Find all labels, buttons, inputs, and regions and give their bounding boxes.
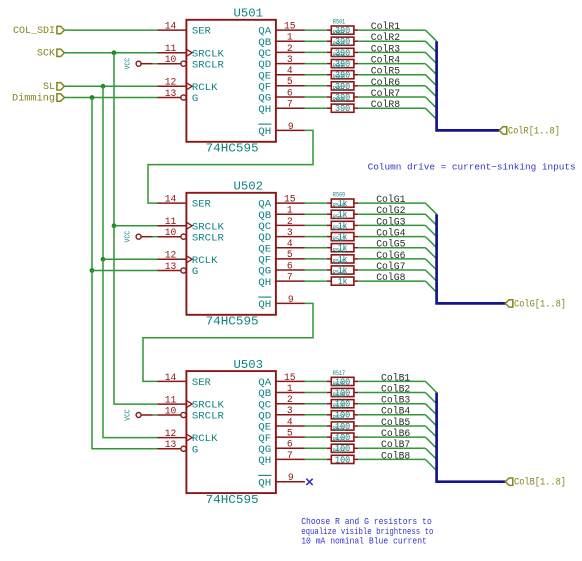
wire VCC to U503 SRCLR	[153, 414, 158, 416]
wire ColB7 pin to resistor R523	[305, 447, 327, 449]
wire resistor R506 to bus entry	[358, 85, 425, 87]
wire VCC to U502 SRCLR	[153, 236, 158, 238]
wire COL_SDI to U501 SER	[64, 29, 157, 31]
U503 pin 3 QD	[258, 406, 305, 422]
svg-text:5: 5	[287, 77, 293, 88]
wire resistor R512 to bus entry	[358, 236, 425, 238]
resistor R515 1k	[327, 258, 358, 276]
bus entry ColR8	[425, 108, 436, 119]
bus entry ColG8	[425, 281, 436, 292]
wire resistor R507 to bus entry	[358, 96, 425, 98]
svg-text:10: 10	[165, 406, 177, 417]
wire SL vertical to U502 RCLK	[102, 86, 104, 259]
svg-text:2: 2	[287, 395, 293, 406]
wire to U502 RCLK	[103, 258, 158, 260]
svg-text:QF: QF	[258, 434, 271, 445]
U503 pin 4 QE	[258, 417, 305, 433]
wire resistor R522 to bus entry	[358, 436, 425, 438]
wire ColG5 pin to resistor R513	[305, 247, 327, 249]
svg-text:15: 15	[284, 22, 296, 33]
U502 pin 10 SRCLR	[158, 228, 224, 244]
svg-text:QE: QE	[258, 244, 271, 255]
bus entry ColG5	[425, 248, 436, 259]
U502 pin 13 G	[158, 262, 199, 278]
svg-text:15: 15	[284, 373, 296, 384]
svg-text:QH: QH	[258, 456, 271, 467]
wire ColR3 pin to resistor R503	[305, 51, 327, 53]
wire Dimming vertical to U502 G	[91, 98, 93, 271]
svg-text:12: 12	[165, 429, 177, 440]
svg-text:SER: SER	[192, 378, 211, 389]
wire resistor R521 to bus entry	[358, 425, 425, 427]
svg-text:QH: QH	[258, 300, 271, 311]
U502 pin 11 SRCLK	[158, 217, 225, 233]
wire ColB8 pin to resistor R524	[305, 458, 327, 460]
wire resistor R518 to bus entry	[358, 392, 425, 394]
wire resistor R516 to bus entry	[358, 280, 425, 282]
U502 pin 14 SER	[158, 195, 211, 211]
svg-text:4: 4	[287, 417, 293, 428]
bus entry ColR6	[425, 86, 436, 97]
U501 pin 5 QF	[258, 77, 305, 93]
svg-text:RCLK: RCLK	[192, 83, 219, 94]
resistor R511 1k	[327, 214, 358, 232]
resistor R507 390	[327, 85, 358, 103]
U503 pin 1 QB	[258, 384, 305, 400]
resistor R523 100	[327, 437, 358, 455]
svg-text:VCC: VCC	[124, 57, 132, 69]
U502 pin 12 RCLK	[158, 251, 219, 267]
svg-text:SRCLK: SRCLK	[192, 49, 225, 60]
wire ColR6 pin to resistor R506	[305, 85, 327, 87]
wire to U502 G	[92, 270, 158, 272]
bus ColB[1..8]	[437, 393, 506, 482]
svg-text:SRCLK: SRCLK	[192, 401, 225, 412]
svg-text:QA: QA	[258, 200, 272, 211]
wire ColB2 pin to resistor R518	[305, 392, 327, 394]
bus entry ColG2	[425, 214, 436, 225]
bus entry ColB2	[425, 393, 436, 404]
U501 pin 9 QH-bar	[258, 122, 305, 138]
bus entry ColR5	[425, 75, 436, 86]
U501 pin 3 QD	[258, 55, 305, 71]
wire SL to U501 RCLK	[64, 85, 157, 87]
wire resistor R511 to bus entry	[358, 224, 425, 226]
U502 pin 3 QD	[258, 228, 305, 244]
resistor R505 390	[327, 63, 358, 81]
svg-text:3: 3	[287, 406, 293, 417]
wire ColR7 pin to resistor R507	[305, 96, 327, 98]
svg-text:SRCLR: SRCLR	[192, 60, 224, 71]
resistor R503 390	[327, 41, 358, 59]
U502 pin 4 QE	[258, 239, 305, 255]
resistor R517 100	[327, 370, 358, 388]
U502 pin 15 QA	[258, 195, 305, 211]
U501 pin 13 G	[158, 89, 199, 105]
resistor R510 1k	[327, 203, 358, 221]
svg-text:QB: QB	[258, 389, 271, 400]
wire ColR8 pin to resistor R508	[305, 107, 327, 109]
U503 pin 13 G	[158, 440, 199, 456]
U501 pin 11 SRCLK	[158, 44, 225, 60]
svg-text:13: 13	[165, 89, 177, 100]
bus entry ColG6	[425, 259, 436, 270]
resistor R514 1k	[327, 247, 358, 264]
svg-text:QF: QF	[258, 256, 271, 267]
wire resistor R501 to bus entry	[358, 29, 425, 31]
U503 pin 5 QF	[258, 429, 305, 445]
wire U501 QH-bar to U502 SER	[148, 130, 313, 203]
svg-text:11: 11	[165, 44, 177, 55]
wire resistor R523 to bus entry	[358, 447, 425, 449]
U502 pin 9 QH-bar	[258, 295, 305, 311]
junction	[101, 84, 106, 89]
resistor R513 1k	[327, 236, 358, 254]
bus entry ColR3	[425, 52, 436, 63]
junction	[112, 223, 117, 228]
wire resistor R504 to bus entry	[358, 63, 425, 65]
resistor R506 390	[327, 74, 358, 92]
resistor R521 100	[327, 414, 358, 432]
svg-text:RCLK: RCLK	[192, 256, 219, 267]
svg-text:2: 2	[287, 44, 293, 55]
IC U501 74HC595 body	[186, 20, 276, 142]
svg-text:QD: QD	[258, 233, 271, 244]
svg-text:100: 100	[335, 455, 350, 465]
svg-text:14: 14	[165, 22, 177, 33]
resistor R520 100	[327, 403, 358, 421]
bus entry ColB8	[425, 459, 436, 470]
wire resistor R515 to bus entry	[358, 269, 425, 271]
svg-text:G: G	[192, 445, 198, 456]
U503 pin 7 QH	[258, 451, 305, 467]
svg-text:QC: QC	[258, 400, 271, 411]
bus entry ColG4	[425, 237, 436, 248]
wire ColG3 pin to resistor R511	[305, 224, 327, 226]
U501 pin 10 SRCLR	[158, 55, 224, 71]
svg-text:10 mA nominal Blue current: 10 mA nominal Blue current	[301, 536, 427, 547]
svg-text:5: 5	[287, 429, 293, 440]
wire Dimming to U501 G	[64, 97, 157, 99]
U503 pin 2 QC	[258, 395, 305, 411]
U503 pin 12 RCLK	[158, 429, 219, 445]
wire ColR2 pin to resistor R502	[305, 40, 327, 42]
wire ColG8 pin to resistor R516	[305, 280, 327, 282]
wire resistor R509 to bus entry	[358, 202, 425, 204]
svg-text:QA: QA	[258, 378, 272, 389]
svg-text:QA: QA	[258, 27, 272, 38]
svg-text:6: 6	[287, 88, 293, 99]
resistor R516 1k	[327, 270, 358, 288]
resistor R504 390	[327, 52, 358, 70]
wire ColG1 pin to resistor R509	[305, 202, 327, 204]
U501 pin 2 QC	[258, 44, 305, 60]
resistor R508 390	[327, 97, 358, 115]
wire ColR5 pin to resistor R505	[305, 74, 327, 76]
wire VCC to U501 SRCLR	[153, 63, 158, 65]
svg-text:ColG[1..8]: ColG[1..8]	[514, 298, 566, 310]
svg-text:6: 6	[287, 261, 293, 272]
svg-text:Dimming: Dimming	[12, 92, 55, 104]
resistor R509 1k	[327, 192, 358, 210]
resistor R501 390	[327, 19, 358, 37]
wire ColB3 pin to resistor R519	[305, 403, 327, 405]
wire ColG4 pin to resistor R512	[305, 236, 327, 238]
bus ColG[1..8]	[437, 214, 506, 303]
wire ColG2 pin to resistor R510	[305, 213, 327, 215]
U503 pin 11 SRCLK	[158, 396, 225, 412]
wire resistor R520 to bus entry	[358, 414, 425, 416]
power symbol VCC at U503 SRCLR	[124, 409, 152, 421]
wire ColR1 pin to resistor R501	[305, 29, 327, 31]
svg-text:QH: QH	[258, 127, 271, 138]
svg-text:3: 3	[287, 55, 293, 66]
bus entry ColR4	[425, 64, 436, 75]
svg-text:QH: QH	[258, 278, 271, 289]
svg-text:ColB[1..8]: ColB[1..8]	[514, 477, 566, 489]
hierarchical label SL	[43, 82, 64, 93]
svg-text:QB: QB	[258, 38, 271, 49]
bus entry ColR2	[425, 41, 436, 52]
wire resistor R503 to bus entry	[358, 51, 425, 53]
wire U502 QH-bar to U503 SER	[143, 303, 313, 381]
svg-text:11: 11	[165, 396, 177, 407]
svg-text:12: 12	[165, 251, 177, 262]
wire resistor R517 to bus entry	[358, 380, 425, 382]
svg-text:74HC595: 74HC595	[206, 494, 259, 507]
svg-text:4: 4	[287, 239, 293, 250]
svg-text:SL: SL	[43, 82, 55, 93]
svg-text:3: 3	[287, 228, 293, 239]
U503 pin 6 QG	[258, 440, 305, 456]
svg-text:SCK: SCK	[37, 49, 56, 60]
U502 pin 2 QC	[258, 217, 305, 233]
bus entry ColG3	[425, 225, 436, 236]
svg-text:VCC: VCC	[124, 409, 132, 421]
svg-text:QH: QH	[258, 105, 271, 116]
U501 pin 6 QG	[258, 88, 305, 104]
svg-text:VCC: VCC	[124, 230, 132, 242]
svg-text:10: 10	[165, 55, 177, 66]
svg-text:2: 2	[287, 217, 293, 228]
bus entry ColB5	[425, 426, 436, 437]
svg-text:QE: QE	[258, 423, 271, 434]
resistor R524 100	[327, 448, 358, 466]
bus entry ColR7	[425, 97, 436, 108]
svg-text:QE: QE	[258, 71, 271, 82]
svg-text:SRCLK: SRCLK	[192, 222, 225, 233]
svg-text:G: G	[192, 94, 198, 105]
resistor R502 390	[327, 30, 358, 48]
svg-text:QG: QG	[258, 445, 271, 456]
wire SL vertical to U503 RCLK	[103, 259, 158, 437]
U502 pin 7 QH	[258, 273, 305, 289]
svg-text:QD: QD	[258, 411, 271, 422]
resistor R512 1k	[327, 225, 358, 243]
wire ColR4 pin to resistor R504	[305, 63, 327, 65]
bus entry ColB3	[425, 404, 436, 415]
wire ColB1 pin to resistor R517	[305, 380, 327, 382]
junction	[90, 95, 95, 100]
svg-text:SRCLR: SRCLR	[192, 233, 224, 244]
svg-text:7: 7	[287, 273, 293, 284]
svg-text:9: 9	[288, 122, 294, 133]
svg-text:390: 390	[335, 104, 350, 114]
svg-text:U503: U503	[234, 359, 264, 372]
svg-text:G: G	[192, 267, 198, 278]
svg-text:1: 1	[287, 206, 293, 217]
power symbol VCC at U502 SRCLR	[124, 230, 152, 242]
svg-text:7: 7	[287, 451, 293, 462]
U503 pin 10 SRCLR	[158, 406, 224, 422]
svg-text:SER: SER	[192, 200, 211, 211]
wire resistor R519 to bus entry	[358, 403, 425, 405]
wire ColG7 pin to resistor R515	[305, 269, 327, 271]
svg-text:11: 11	[165, 217, 177, 228]
IC U503 74HC595 body	[186, 371, 276, 493]
svg-text:SER: SER	[192, 27, 211, 38]
U503 pin 14 SER	[158, 373, 211, 389]
resistor R522 100	[327, 426, 358, 444]
svg-text:RCLK: RCLK	[192, 434, 219, 445]
U502 pin 6 QG	[258, 261, 305, 277]
svg-text:QB: QB	[258, 211, 271, 222]
svg-text:ColR[1..8]: ColR[1..8]	[508, 125, 560, 137]
hierarchical label SCK	[37, 49, 64, 60]
bus entry ColG7	[425, 270, 436, 281]
bus entry ColB7	[425, 448, 436, 459]
U501 pin 7 QH	[258, 100, 305, 116]
svg-text:Column drive = current−sinking: Column drive = current−sinking inputs	[368, 162, 576, 173]
svg-text:COL_SDI: COL_SDI	[13, 26, 55, 37]
svg-text:10: 10	[165, 228, 177, 239]
svg-text:5: 5	[287, 250, 293, 261]
wire resistor R502 to bus entry	[358, 40, 425, 42]
svg-text:1: 1	[287, 384, 293, 395]
wire resistor R508 to bus entry	[358, 107, 425, 109]
junction	[90, 268, 95, 273]
IC U502 74HC595 body	[186, 193, 276, 315]
bus entry ColB1	[425, 381, 436, 392]
svg-text:13: 13	[165, 440, 177, 451]
svg-text:9: 9	[288, 473, 294, 484]
svg-text:74HC595: 74HC595	[206, 143, 259, 156]
svg-text:QG: QG	[258, 267, 271, 278]
U501 pin 4 QE	[258, 66, 305, 82]
svg-text:SRCLR: SRCLR	[192, 412, 224, 423]
wire ColB5 pin to resistor R521	[305, 425, 327, 427]
svg-text:QC: QC	[258, 49, 271, 60]
wire resistor R514 to bus entry	[358, 258, 425, 260]
wire SCK vertical to U502 SRCLK	[113, 53, 115, 226]
svg-text:9: 9	[288, 295, 294, 306]
svg-text:13: 13	[165, 262, 177, 273]
hierarchical label ColG[1..8]	[505, 298, 566, 310]
svg-text:14: 14	[165, 195, 177, 206]
resistor R519 100	[327, 392, 358, 410]
svg-text:QC: QC	[258, 222, 271, 233]
U501 pin 12 RCLK	[158, 78, 219, 94]
svg-text:QF: QF	[258, 82, 271, 93]
bus entry ColB6	[425, 437, 436, 448]
svg-text:U501: U501	[234, 8, 264, 21]
power symbol VCC at U501 SRCLR	[124, 57, 152, 69]
bus entry ColB4	[425, 415, 436, 426]
svg-text:15: 15	[284, 195, 296, 206]
wire ColB6 pin to resistor R522	[305, 436, 327, 438]
wire resistor R510 to bus entry	[358, 213, 425, 215]
svg-text:U502: U502	[234, 181, 264, 194]
U501 pin 1 QB	[258, 33, 305, 49]
wire ColB4 pin to resistor R520	[305, 414, 327, 416]
hierarchical label Dimming	[12, 92, 64, 104]
bus entry ColG1	[425, 203, 436, 214]
wire SCK vertical to U503 SRCLK	[114, 226, 158, 404]
svg-text:7: 7	[287, 100, 293, 111]
junction	[112, 50, 117, 55]
wire SCK to U501 SRCLK	[64, 52, 157, 54]
bus ColR[1..8]	[437, 41, 500, 130]
svg-text:QD: QD	[258, 60, 271, 71]
wire Dimming vertical to U503 G	[92, 271, 158, 449]
hierarchical label ColR[1..8]	[499, 125, 560, 137]
hierarchical label COL_SDI	[13, 26, 64, 37]
hierarchical label ColB[1..8]	[505, 477, 566, 489]
svg-text:1: 1	[287, 33, 293, 44]
U503 pin 9 QH-bar	[258, 473, 305, 489]
svg-text:74HC595: 74HC595	[206, 316, 259, 329]
no-connect X on U503 QH-bar	[306, 479, 312, 485]
svg-text:12: 12	[165, 78, 177, 89]
bus entry ColR1	[425, 30, 436, 41]
U503 pin 15 QA	[258, 373, 305, 389]
svg-text:QG: QG	[258, 94, 271, 105]
resistor R518 100	[327, 381, 358, 399]
wire ColG6 pin to resistor R514	[305, 258, 327, 260]
svg-text:QH: QH	[258, 478, 271, 489]
wire resistor R524 to bus entry	[358, 458, 425, 460]
U502 pin 1 QB	[258, 206, 305, 222]
svg-text:14: 14	[165, 373, 177, 384]
wire to U502 SRCLK	[114, 225, 158, 227]
wire resistor R505 to bus entry	[358, 74, 425, 76]
junction	[101, 257, 106, 262]
wire resistor R513 to bus entry	[358, 247, 425, 249]
U502 pin 5 QF	[258, 250, 305, 266]
svg-text:4: 4	[287, 66, 293, 77]
svg-text:6: 6	[287, 440, 293, 451]
svg-text:1k: 1k	[338, 277, 348, 287]
U501 pin 15 QA	[258, 22, 305, 38]
U501 pin 14 SER	[158, 22, 211, 38]
